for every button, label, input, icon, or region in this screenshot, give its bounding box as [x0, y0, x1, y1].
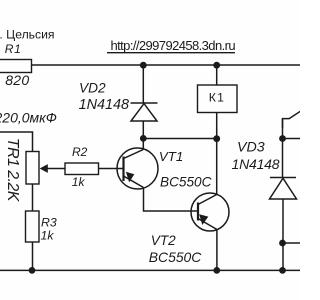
wire TR1 wiper: [46, 168, 65, 170]
svg-text:BC550C: BC550C: [149, 249, 202, 265]
node junction relay contact: [279, 135, 286, 142]
wire bottom bus: [0, 269, 300, 271]
svg-text:220,0мкФ: 220,0мкФ: [0, 109, 57, 125]
svg-text:VD2: VD2: [79, 81, 106, 96]
svg-text:R2: R2: [72, 145, 88, 159]
wire right stub lower: [283, 242, 301, 244]
diode VD2: [131, 103, 158, 139]
wire right stub upper: [283, 138, 301, 140]
wire R3 to bottom bus: [32, 242, 34, 271]
svg-text:VT2: VT2: [151, 233, 176, 248]
svg-text:VT1: VT1: [159, 149, 183, 164]
node junction top K1: [213, 62, 220, 69]
wire VT1 emitter to VT2 base: [144, 188, 199, 212]
svg-text:R1: R1: [5, 42, 22, 56]
svg-text:VD3: VD3: [237, 140, 265, 156]
wire contact to VD3: [282, 119, 284, 178]
svg-text:1N4148: 1N4148: [232, 156, 280, 172]
svg-text:R3: R3: [41, 216, 57, 230]
potentiometer TR1: [26, 152, 39, 185]
wire K1 top lead: [216, 65, 218, 85]
wire VT2 emitter to bottom bus: [216, 230, 218, 271]
wire R2 to VT1 base: [99, 168, 124, 170]
wire VD3 to bottom bus: [282, 199, 284, 271]
wire TR1 to R3: [32, 184, 34, 211]
svg-text:1k: 1k: [72, 175, 86, 189]
wire collector node: [143, 138, 216, 140]
wire K1 to VT2 collector: [216, 113, 218, 195]
node junction top VD2: [140, 62, 147, 69]
transistor VT2: [191, 193, 229, 231]
wire VT1 collector up: [142, 139, 144, 150]
relay contact arm: [283, 119, 290, 128]
node junction bottom left: [29, 267, 36, 274]
svg-text:. Цельсия: . Цельсия: [0, 28, 55, 42]
svg-text:1k: 1k: [41, 229, 55, 243]
diode VD3: [270, 178, 297, 200]
svg-text:К1: К1: [209, 90, 225, 104]
resistor R1: [0, 60, 32, 73]
svg-text:1N4148: 1N4148: [79, 97, 129, 113]
svg-text:BC550C: BC550C: [160, 174, 212, 189]
svg-text:820: 820: [5, 72, 29, 88]
wire left capacitor lead: [0, 132, 33, 152]
transistor VT1: [117, 148, 158, 189]
wire URL underline: [107, 52, 235, 54]
node junction bottom VT2: [213, 267, 220, 274]
svg-text:http://299792458.3dn.ru: http://299792458.3dn.ru: [111, 38, 236, 53]
node junction bottom right: [279, 267, 286, 274]
resistor R2: [65, 163, 99, 175]
wire top bus: [32, 64, 301, 66]
relay coil K1: [198, 85, 238, 113]
svg-text:TR1 2.2K: TR1 2.2K: [4, 138, 21, 203]
resistor R3: [26, 211, 40, 242]
node junction VT2 collector: [213, 135, 220, 142]
node junction VD2 anode: [140, 135, 147, 142]
wire VD2 top lead: [142, 65, 144, 103]
node junction VD3 lower stub: [279, 240, 286, 247]
